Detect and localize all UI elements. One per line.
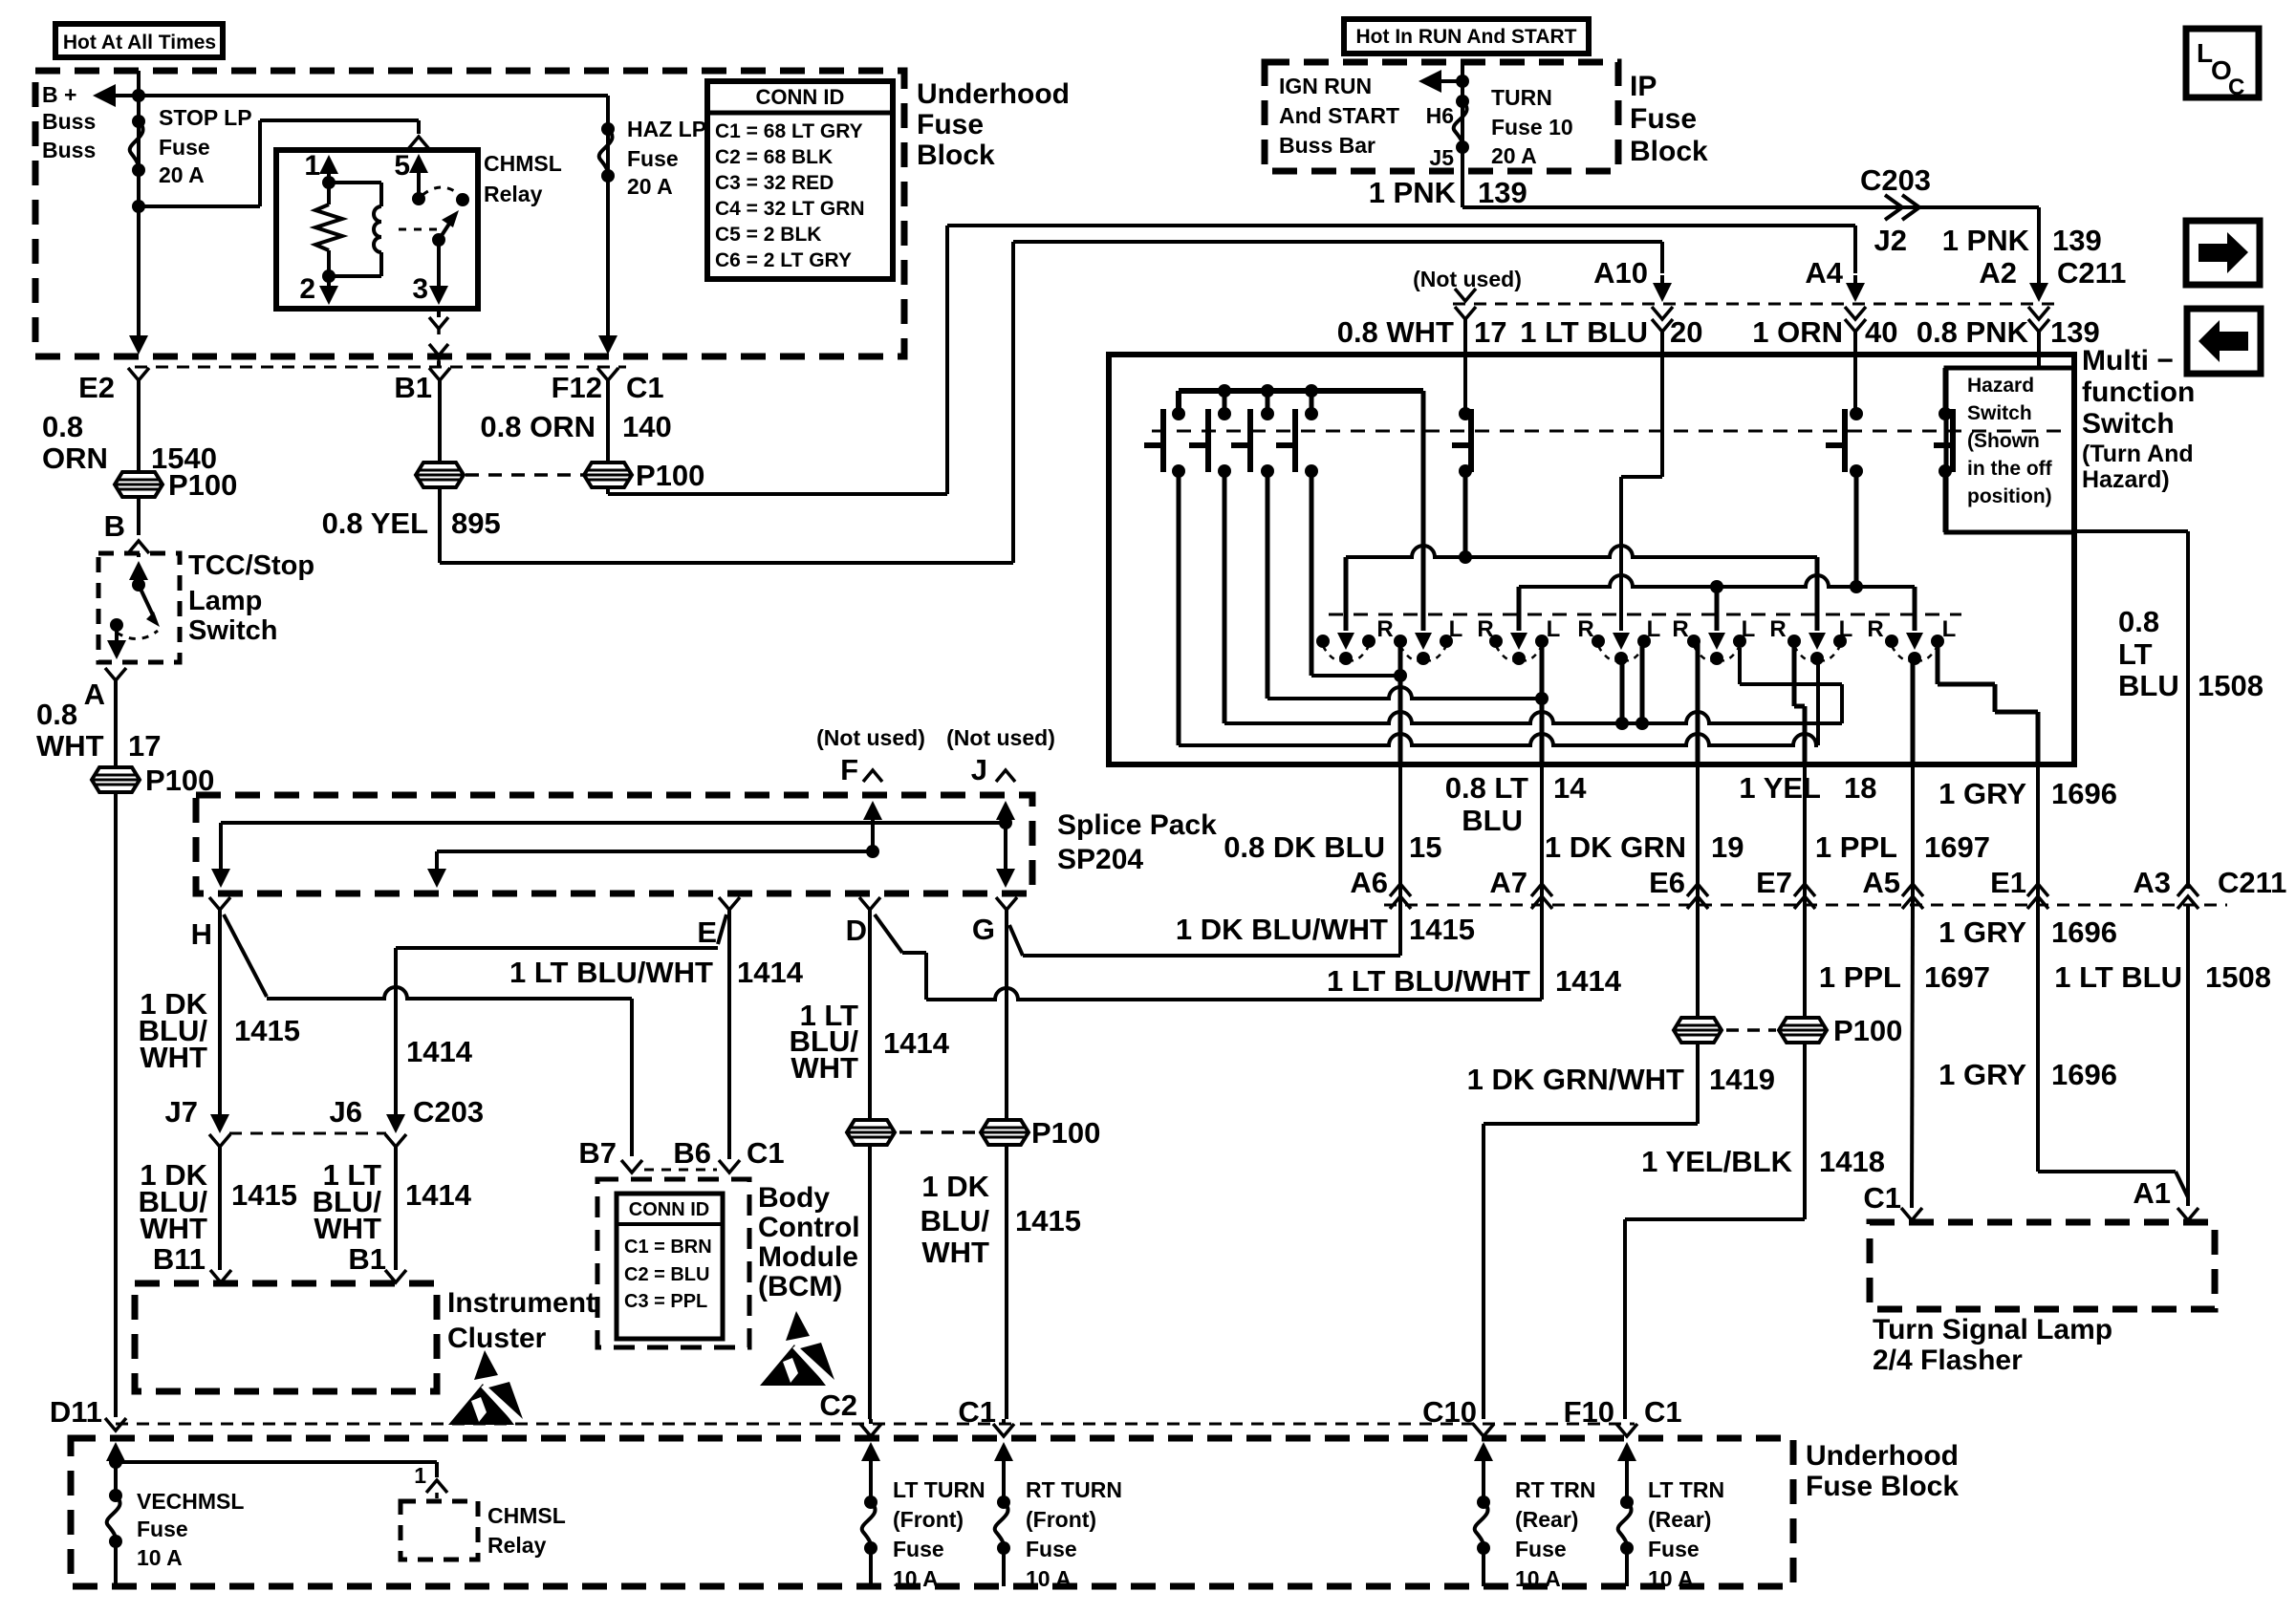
svg-text:in the off: in the off	[1967, 458, 2053, 480]
svg-text:CONN ID: CONN ID	[756, 85, 845, 109]
svg-text:(Not used): (Not used)	[946, 725, 1055, 750]
svg-text:L: L	[1547, 616, 1561, 642]
svg-text:HAZ LP: HAZ LP	[627, 117, 706, 141]
svg-text:F12: F12	[552, 371, 602, 404]
svg-text:10 A: 10 A	[137, 1545, 183, 1570]
svg-text:Block: Block	[917, 140, 995, 171]
svg-text:C1: C1	[626, 371, 664, 404]
svg-text:1 DK GRN: 1 DK GRN	[1545, 830, 1686, 864]
svg-text:Switch: Switch	[188, 615, 277, 646]
svg-text:10 A: 10 A	[1026, 1566, 1072, 1591]
svg-text:E7: E7	[1756, 866, 1792, 899]
svg-text:1419: 1419	[1709, 1063, 1775, 1096]
svg-text:position): position)	[1967, 485, 2052, 507]
svg-text:0.8 LT: 0.8 LT	[1445, 771, 1528, 805]
svg-text:3: 3	[412, 273, 428, 305]
svg-text:1418: 1418	[1819, 1145, 1885, 1178]
svg-text:Lamp: Lamp	[188, 586, 262, 616]
svg-text:1 DK: 1 DK	[921, 1170, 989, 1203]
svg-text:1414: 1414	[737, 956, 804, 989]
svg-text:15: 15	[1409, 830, 1441, 864]
svg-text:17: 17	[128, 729, 161, 763]
svg-text:B: B	[104, 509, 125, 543]
svg-text:B +: B +	[42, 82, 76, 107]
svg-text:B1: B1	[348, 1242, 386, 1276]
svg-text:0.8 ORN: 0.8 ORN	[480, 410, 596, 443]
svg-text:F10: F10	[1564, 1395, 1614, 1429]
svg-text:C2: C2	[819, 1388, 857, 1422]
svg-text:1697: 1697	[1924, 830, 1990, 864]
svg-text:2/4 Flasher: 2/4 Flasher	[1873, 1345, 2023, 1376]
svg-text:1415: 1415	[234, 1014, 300, 1047]
svg-text:C1: C1	[1863, 1181, 1901, 1215]
svg-text:14: 14	[1553, 771, 1587, 805]
svg-text:Buss: Buss	[42, 138, 96, 162]
svg-text:SP204: SP204	[1057, 844, 1143, 875]
svg-text:C211: C211	[2057, 256, 2126, 290]
svg-text:WHT: WHT	[36, 729, 104, 763]
svg-text:WHT: WHT	[140, 1212, 207, 1245]
svg-text:L: L	[1942, 616, 1957, 642]
svg-text:J: J	[971, 753, 987, 786]
svg-text:C203: C203	[413, 1095, 484, 1129]
svg-text:1 GRY: 1 GRY	[1939, 1058, 2026, 1091]
svg-text:A: A	[84, 678, 105, 711]
svg-text:17: 17	[1474, 315, 1506, 349]
svg-text:0.8: 0.8	[42, 410, 83, 443]
svg-text:140: 140	[622, 410, 672, 443]
svg-text:A3: A3	[2133, 866, 2171, 899]
svg-text:BLU/: BLU/	[921, 1204, 990, 1237]
svg-text:WHT: WHT	[314, 1212, 381, 1245]
svg-text:1 GRY: 1 GRY	[1939, 915, 2026, 949]
svg-text:Hazard: Hazard	[1967, 375, 2034, 397]
svg-text:J6: J6	[330, 1095, 362, 1129]
svg-text:Buss Bar: Buss Bar	[1279, 133, 1375, 158]
svg-text:1: 1	[414, 1463, 426, 1488]
svg-text:1 YEL: 1 YEL	[1739, 771, 1821, 805]
svg-text:(Front): (Front)	[893, 1507, 964, 1532]
svg-text:P100: P100	[168, 468, 237, 502]
svg-text:Fuse: Fuse	[159, 135, 210, 160]
svg-text:R: R	[1672, 616, 1688, 642]
svg-text:0.8 DK BLU: 0.8 DK BLU	[1224, 830, 1385, 864]
svg-text:Buss: Buss	[42, 109, 96, 134]
svg-text:1508: 1508	[2198, 669, 2264, 702]
svg-text:Switch: Switch	[1967, 402, 2032, 424]
svg-text:Underhood: Underhood	[1806, 1440, 1959, 1472]
svg-text:(Not used): (Not used)	[1413, 267, 1522, 291]
svg-text:And START: And START	[1279, 103, 1399, 128]
svg-text:1 LT BLU: 1 LT BLU	[2054, 960, 2182, 994]
svg-text:Fuse: Fuse	[137, 1517, 188, 1541]
svg-text:R: R	[1769, 616, 1786, 642]
svg-text:E2: E2	[78, 371, 115, 404]
svg-text:Relay: Relay	[487, 1533, 547, 1558]
svg-text:VECHMSL: VECHMSL	[137, 1489, 244, 1514]
svg-text:1 DK BLU/WHT: 1 DK BLU/WHT	[1176, 913, 1388, 946]
svg-text:B1: B1	[394, 371, 432, 404]
svg-text:139: 139	[2050, 315, 2100, 349]
svg-text:E: E	[697, 915, 717, 949]
svg-text:C2 = 68 BLK: C2 = 68 BLK	[715, 146, 833, 168]
svg-text:0.8 WHT: 0.8 WHT	[1337, 315, 1454, 349]
svg-text:WHT: WHT	[791, 1051, 858, 1085]
svg-text:LT TURN: LT TURN	[893, 1477, 986, 1502]
svg-text:RT TURN: RT TURN	[1026, 1477, 1122, 1502]
svg-text:A10: A10	[1593, 256, 1648, 290]
svg-text:20 A: 20 A	[159, 162, 205, 187]
svg-text:18: 18	[1844, 771, 1876, 805]
svg-text:Relay: Relay	[484, 182, 543, 206]
svg-text:1 PPL: 1 PPL	[1815, 830, 1897, 864]
svg-text:A1: A1	[2133, 1176, 2171, 1210]
svg-text:1: 1	[304, 150, 320, 182]
svg-text:139: 139	[1478, 176, 1527, 209]
svg-text:20 A: 20 A	[1491, 143, 1537, 168]
svg-text:20 A: 20 A	[627, 174, 673, 199]
svg-text:(Rear): (Rear)	[1515, 1507, 1578, 1532]
svg-text:(BCM): (BCM)	[758, 1271, 842, 1302]
svg-text:C1: C1	[1644, 1395, 1682, 1429]
svg-text:R: R	[1376, 616, 1393, 642]
svg-text:H6: H6	[1426, 103, 1454, 128]
svg-text:R: R	[1867, 616, 1883, 642]
svg-text:Block: Block	[1630, 136, 1708, 167]
svg-text:1414: 1414	[405, 1178, 472, 1212]
svg-text:D11: D11	[50, 1395, 102, 1429]
svg-text:Fuse 10: Fuse 10	[1491, 115, 1573, 140]
svg-text:1 LT BLU/WHT: 1 LT BLU/WHT	[1327, 964, 1530, 998]
svg-text:D: D	[846, 914, 867, 947]
svg-text:1696: 1696	[2051, 1058, 2117, 1091]
svg-text:CHMSL: CHMSL	[487, 1503, 566, 1528]
svg-text:895: 895	[451, 506, 501, 540]
svg-text:0.8 YEL: 0.8 YEL	[322, 506, 428, 540]
svg-text:C2 = BLU: C2 = BLU	[624, 1264, 709, 1285]
svg-text:C10: C10	[1422, 1395, 1477, 1429]
svg-text:C3 = PPL: C3 = PPL	[624, 1291, 707, 1312]
svg-text:A5: A5	[1862, 866, 1900, 899]
svg-text:2: 2	[299, 273, 315, 305]
svg-text:LT TRN: LT TRN	[1648, 1477, 1724, 1502]
svg-text:1415: 1415	[1409, 913, 1475, 946]
svg-text:C: C	[2228, 75, 2244, 100]
svg-text:ORN: ORN	[42, 441, 108, 475]
svg-text:Fuse: Fuse	[1630, 103, 1697, 135]
svg-text:40: 40	[1865, 315, 1897, 349]
svg-text:Fuse: Fuse	[1648, 1537, 1700, 1561]
svg-text:C211: C211	[2218, 866, 2286, 899]
svg-text:J2: J2	[1874, 224, 1907, 257]
svg-text:TCC/Stop: TCC/Stop	[188, 550, 314, 581]
svg-text:1697: 1697	[1924, 960, 1990, 994]
svg-text:C1 = 68 LT GRY: C1 = 68 LT GRY	[715, 120, 863, 142]
svg-text:P100: P100	[1833, 1014, 1902, 1047]
svg-text:1 LT BLU/WHT: 1 LT BLU/WHT	[509, 956, 713, 989]
svg-text:1 ORN: 1 ORN	[1752, 315, 1843, 349]
svg-text:10 A: 10 A	[893, 1566, 939, 1591]
svg-text:(Shown: (Shown	[1967, 430, 2040, 452]
svg-text:Fuse: Fuse	[1026, 1537, 1077, 1561]
svg-text:C1 = BRN: C1 = BRN	[624, 1237, 712, 1258]
svg-text:H: H	[191, 917, 212, 951]
svg-text:Body: Body	[758, 1182, 830, 1214]
svg-text:1 LT BLU: 1 LT BLU	[1520, 315, 1648, 349]
svg-text:C1: C1	[958, 1395, 996, 1429]
svg-text:G: G	[972, 913, 995, 946]
svg-text:L: L	[1839, 616, 1853, 642]
svg-text:1696: 1696	[2051, 777, 2117, 810]
svg-text:Module: Module	[758, 1241, 858, 1273]
svg-text:P100: P100	[1031, 1116, 1100, 1150]
svg-text:Fuse Block: Fuse Block	[1806, 1471, 1959, 1502]
svg-text:1 GRY: 1 GRY	[1939, 777, 2026, 810]
svg-text:Fuse: Fuse	[1515, 1537, 1567, 1561]
svg-text:BLU: BLU	[1462, 804, 1523, 837]
svg-text:F: F	[840, 753, 858, 786]
svg-text:CONN ID: CONN ID	[629, 1199, 709, 1220]
svg-text:B7: B7	[578, 1136, 617, 1170]
svg-text:A6: A6	[1350, 866, 1388, 899]
svg-text:0.8: 0.8	[36, 698, 77, 731]
svg-text:STOP LP: STOP LP	[159, 105, 252, 130]
svg-text:1414: 1414	[883, 1026, 950, 1060]
svg-text:1 DK GRN/WHT: 1 DK GRN/WHT	[1467, 1063, 1684, 1096]
svg-text:A7: A7	[1489, 866, 1527, 899]
svg-text:Cluster: Cluster	[447, 1323, 547, 1354]
svg-text:WHT: WHT	[140, 1041, 207, 1074]
svg-text:C203: C203	[1860, 163, 1931, 197]
svg-text:0.8 PNK: 0.8 PNK	[1917, 315, 2029, 349]
svg-text:Hot In RUN And START: Hot In RUN And START	[1356, 26, 1577, 48]
svg-text:19: 19	[1711, 830, 1744, 864]
svg-text:WHT: WHT	[921, 1236, 989, 1269]
svg-text:Underhood: Underhood	[917, 78, 1070, 110]
svg-text:20: 20	[1670, 315, 1702, 349]
svg-text:L: L	[1647, 616, 1661, 642]
svg-text:Turn Signal Lamp: Turn Signal Lamp	[1873, 1314, 2112, 1345]
svg-text:J5: J5	[1429, 145, 1454, 170]
svg-text:0.8: 0.8	[2118, 605, 2159, 638]
svg-text:1 PNK: 1 PNK	[1369, 176, 1457, 209]
svg-text:139: 139	[2052, 224, 2102, 257]
svg-text:A4: A4	[1805, 256, 1843, 290]
svg-text:(Not used): (Not used)	[816, 725, 925, 750]
svg-text:J7: J7	[165, 1095, 198, 1129]
svg-text:Hazard): Hazard)	[2082, 466, 2170, 493]
svg-text:Control: Control	[758, 1212, 860, 1243]
svg-text:1 YEL/BLK: 1 YEL/BLK	[1641, 1145, 1793, 1178]
svg-text:Multi −: Multi −	[2082, 345, 2174, 377]
svg-text:Splice Pack: Splice Pack	[1057, 809, 1217, 841]
svg-text:10 A: 10 A	[1515, 1566, 1561, 1591]
svg-text:1415: 1415	[1015, 1204, 1081, 1237]
svg-text:1696: 1696	[2051, 915, 2117, 949]
svg-text:IP: IP	[1630, 71, 1657, 102]
svg-text:Fuse: Fuse	[917, 109, 984, 140]
svg-text:1 PPL: 1 PPL	[1819, 960, 1901, 994]
svg-text:Hot At All Times: Hot At All Times	[63, 32, 216, 54]
svg-text:Switch: Switch	[2082, 408, 2175, 440]
svg-text:C1: C1	[747, 1136, 785, 1170]
svg-text:B11: B11	[153, 1242, 206, 1276]
svg-text:Fuse: Fuse	[893, 1537, 944, 1561]
svg-text:1415: 1415	[231, 1178, 297, 1212]
svg-text:C3 = 32 RED: C3 = 32 RED	[715, 172, 834, 194]
svg-text:10 A: 10 A	[1648, 1566, 1694, 1591]
svg-text:E6: E6	[1649, 866, 1685, 899]
svg-text:Fuse: Fuse	[627, 146, 679, 171]
svg-text:A2: A2	[1979, 256, 2017, 290]
svg-text:5: 5	[394, 150, 410, 182]
svg-text:(Turn And: (Turn And	[2082, 441, 2194, 467]
svg-text:TURN: TURN	[1491, 85, 1552, 110]
svg-text:B6: B6	[673, 1136, 711, 1170]
svg-text:P100: P100	[636, 459, 704, 492]
svg-text:(Front): (Front)	[1026, 1507, 1096, 1532]
svg-text:R: R	[1577, 616, 1593, 642]
svg-text:(Rear): (Rear)	[1648, 1507, 1711, 1532]
svg-text:RT TRN: RT TRN	[1515, 1477, 1595, 1502]
svg-text:LT: LT	[2118, 637, 2153, 671]
svg-text:BLU: BLU	[2118, 669, 2179, 702]
svg-text:C6 = 2 LT GRY: C6 = 2 LT GRY	[715, 249, 852, 271]
svg-text:1 PNK: 1 PNK	[1942, 224, 2030, 257]
svg-text:L: L	[1449, 616, 1463, 642]
svg-text:CHMSL: CHMSL	[484, 151, 562, 176]
svg-text:R: R	[1477, 616, 1493, 642]
svg-text:E1: E1	[1990, 866, 2026, 899]
svg-text:1414: 1414	[1555, 964, 1622, 998]
svg-text:L: L	[1742, 616, 1756, 642]
svg-text:function: function	[2082, 377, 2195, 408]
svg-text:C5 = 2 BLK: C5 = 2 BLK	[715, 224, 821, 246]
svg-text:IGN RUN: IGN RUN	[1279, 74, 1372, 98]
svg-text:C4 = 32 LT GRN: C4 = 32 LT GRN	[715, 198, 865, 220]
svg-text:Instrument: Instrument	[447, 1287, 596, 1319]
svg-text:1508: 1508	[2205, 960, 2271, 994]
svg-text:1414: 1414	[406, 1035, 473, 1068]
